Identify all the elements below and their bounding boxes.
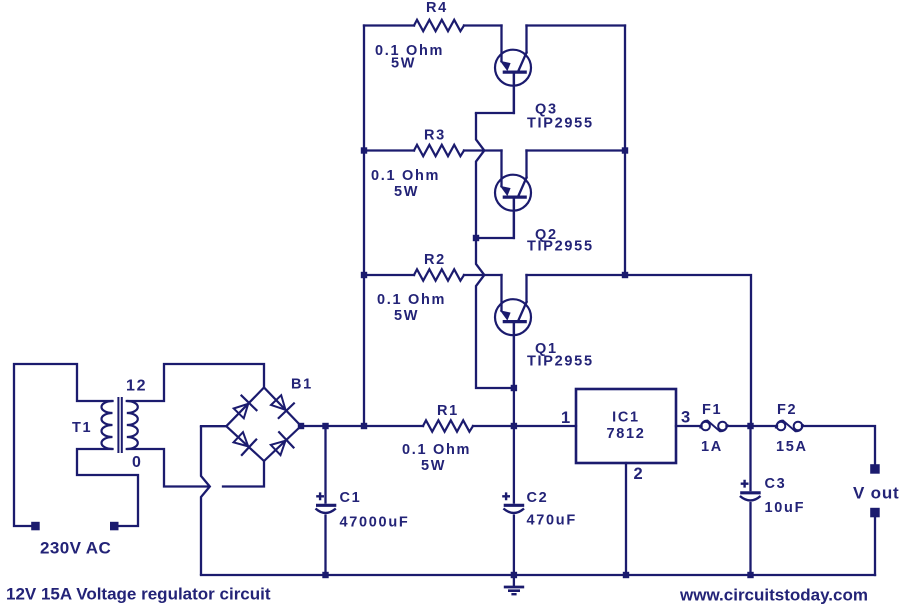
svg-text:www.circuitstoday.com: www.circuitstoday.com [679, 586, 868, 605]
transformer T1 core [118, 397, 121, 453]
wire Q2 collector lead [525, 151, 527, 178]
svg-text:15A: 15A [776, 439, 808, 455]
junction output node / C3 top [747, 423, 753, 429]
wire Q2 base to base bus [476, 197, 514, 238]
junction left bus on main row [361, 423, 367, 429]
transformer T1 secondary winding [127, 401, 138, 449]
svg-text:5W: 5W [394, 184, 419, 200]
transistor Q1 TIP2955 (PNP) [495, 299, 531, 388]
svg-text:C2: C2 [527, 490, 549, 506]
terminal V out - [870, 508, 880, 518]
wire IC1 pin2 to ground [625, 463, 627, 575]
svg-text:TIP2955: TIP2955 [527, 354, 594, 370]
bridge rectifier B1 diamond [226, 388, 301, 462]
wire row1 left lead [364, 24, 414, 26]
terminal mains left [31, 522, 40, 531]
svg-text:R1: R1 [437, 403, 459, 419]
junction base node / C2 top [511, 423, 517, 429]
junction C3 bottom on ground rail [747, 572, 753, 578]
wire secondary 0 tap toward bridge [127, 449, 209, 487]
wire row3 to right bus [527, 274, 626, 276]
svg-text:470uF: 470uF [527, 513, 577, 529]
wire Q3 base to base bus [476, 72, 514, 113]
svg-text:10uF: 10uF [765, 500, 806, 516]
svg-text:R4: R4 [426, 0, 448, 16]
wire Q1 collector lead [525, 275, 527, 302]
junction Q1 base node [511, 385, 517, 391]
wire to bridge bottom vertex [223, 461, 264, 487]
capacitor C3 10uF [740, 426, 761, 575]
svg-text:IC1: IC1 [612, 410, 640, 426]
junction bridge + output [298, 423, 304, 429]
svg-text:TIP2955: TIP2955 [527, 116, 594, 132]
junction row2 right bus [622, 147, 628, 153]
wire mains neutral to primary bottom [77, 449, 138, 526]
wire V out - to ground rail [874, 517, 876, 575]
wire IC1 pin3 to F1 [676, 425, 702, 427]
capacitor C1 47000uF [316, 426, 337, 575]
svg-text:5W: 5W [421, 458, 446, 474]
wire Q3 emitter lead [500, 26, 502, 62]
svg-text:0.1 Ohm: 0.1 Ohm [377, 292, 446, 308]
svg-text:B1: B1 [291, 377, 313, 393]
diode B1 bottom-to-right [271, 432, 294, 455]
wire R3 to Q2 emitter [464, 149, 502, 151]
terminal mains right [110, 522, 119, 531]
wire secondary 12V tap to bridge top [127, 364, 264, 401]
svg-text:3: 3 [681, 409, 692, 427]
svg-text:12V 15A Voltage regulator circ: 12V 15A Voltage regulator circuit [6, 585, 271, 604]
wire Q3 collector lead [525, 26, 527, 53]
diode B1 left-to-top [234, 396, 257, 419]
junction C1 bottom on ground rail [322, 572, 328, 578]
resistor R3 [414, 145, 464, 156]
svg-text:T1: T1 [72, 420, 92, 436]
svg-text:7812: 7812 [606, 426, 645, 442]
wire bridge AC- lead [201, 425, 226, 427]
svg-text:2: 2 [634, 465, 645, 483]
resistor R4 [414, 20, 464, 31]
svg-text:47000uF: 47000uF [340, 515, 410, 531]
wire row2 to right bus [527, 149, 626, 151]
voltage regulator IC1 7812 [576, 389, 676, 463]
svg-text:R2: R2 [424, 252, 446, 268]
svg-text:0: 0 [132, 454, 143, 471]
resistor R1 [423, 420, 473, 431]
svg-text:TIP2955: TIP2955 [527, 239, 594, 255]
junction IC1 pin2 on ground rail [623, 572, 629, 578]
svg-text:1: 1 [561, 409, 572, 427]
transistor Q2 TIP2955 (PNP) [495, 175, 531, 238]
junction Q2 base on base bus [473, 235, 479, 241]
fuse F2 15A [776, 421, 803, 432]
fuse F1 1A [700, 421, 727, 432]
wire bridge minus to ground with crossover hop [201, 426, 210, 575]
resistor R2 [414, 269, 464, 280]
svg-text:V out: V out [853, 484, 900, 503]
wire R4 to Q3 emitter [464, 24, 502, 26]
svg-text:0.1 Ohm: 0.1 Ohm [402, 442, 471, 458]
junction C1 top [322, 423, 328, 429]
wire R2 to Q1 emitter [464, 274, 502, 276]
wire F1 to output node [727, 425, 778, 427]
wire left bus (input rail) [363, 26, 365, 427]
junction row3 left bus [361, 272, 367, 278]
wire Q2 emitter lead [500, 151, 502, 187]
wire row1 to right bus [527, 24, 626, 26]
wire ground rail [201, 574, 875, 576]
terminal V out + [870, 464, 880, 474]
wire mains live to primary top [14, 364, 113, 526]
ground earth symbol [504, 575, 524, 594]
wire base node to regulator input node [513, 388, 515, 426]
wire Q1 base lead [513, 322, 515, 388]
svg-text:C3: C3 [765, 476, 787, 492]
wire F2 to V out terminal [802, 426, 875, 464]
wire row2 left lead [364, 149, 414, 151]
svg-text:R3: R3 [424, 128, 446, 144]
wire bridge+ to R1 [301, 425, 423, 427]
svg-text:5W: 5W [394, 308, 419, 324]
diode B1 left-to-bottom [234, 432, 257, 455]
wire base bus with crossover hops [476, 113, 514, 388]
svg-text:F1: F1 [702, 402, 722, 418]
capacitor C2 470uF [502, 426, 524, 575]
wire right bus to output node [625, 275, 751, 426]
svg-text:230V AC: 230V AC [40, 539, 111, 558]
svg-text:1A: 1A [701, 439, 723, 455]
diode B1 top-to-right [271, 395, 294, 418]
wire R1 to IC1 pin1 [473, 425, 576, 427]
svg-text:0.1 Ohm: 0.1 Ohm [371, 168, 440, 184]
svg-text:F2: F2 [777, 402, 797, 418]
svg-text:5W: 5W [391, 56, 416, 72]
svg-text:C1: C1 [340, 490, 362, 506]
wire right collector bus [624, 26, 626, 276]
wire row3 left lead [364, 274, 414, 276]
junction row2 left bus [361, 147, 367, 153]
junction row3 right bus [622, 272, 628, 278]
wire Q1 emitter lead [500, 275, 502, 311]
svg-text:12: 12 [126, 378, 147, 395]
transistor Q3 TIP2955 (PNP) [495, 50, 531, 113]
junction C2 / earth on ground rail [511, 572, 517, 578]
transformer T1 primary winding [102, 401, 113, 449]
